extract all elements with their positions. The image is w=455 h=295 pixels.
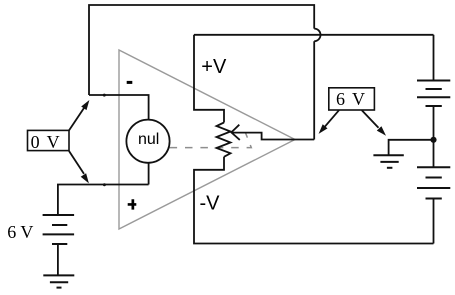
op-amp U1 (triangle body) — [119, 50, 295, 229]
wire potentiometer bottom / -V edge / bottom rail — [194, 157, 434, 244]
svg-text:6 V: 6 V — [336, 89, 366, 109]
wire feedback loop (output to inverting input, with hop) — [89, 5, 314, 95]
label box 0 V — [28, 130, 70, 150]
node dot on noninverting wire — [103, 183, 106, 186]
node dot on inverting wire — [103, 94, 106, 97]
wire inverting input — [89, 95, 149, 120]
wire op-amp output — [295, 139, 314, 141]
ground symbol left — [43, 275, 74, 287]
arrow 0V to noninverting wire — [69, 151, 89, 183]
svg-text:nul: nul — [138, 131, 159, 148]
svg-text:-V: -V — [200, 193, 221, 215]
arrow 0V to inverting wire — [69, 100, 89, 130]
wire hop over +V rail — [314, 29, 320, 42]
battery B1 plates — [43, 215, 75, 244]
wire battery B3 bottom lead — [433, 199, 435, 244]
arrow 6V to ground node — [362, 110, 386, 136]
wire battery B1 bottom lead — [57, 244, 59, 275]
battery B2 plates — [417, 81, 450, 107]
wire wiper to output node — [231, 133, 295, 140]
pin label minus (inverting) — [127, 81, 133, 84]
wire noninverting input — [58, 185, 149, 216]
dashed null-adjust annotation line — [170, 133, 252, 147]
svg-text:6 V: 6 V — [7, 222, 33, 242]
wire meter to noninverting input — [148, 163, 150, 185]
svg-text:0 V: 0 V — [31, 132, 61, 152]
arrow 6V to output node — [319, 110, 339, 134]
wire feedback vertical lower — [313, 41, 315, 139]
junction dot between batteries — [430, 137, 436, 143]
wire +V top rail — [194, 34, 434, 36]
wire battery midpoint to ground — [389, 140, 434, 156]
null meter M1 body — [126, 120, 169, 163]
potentiometer resistor zigzag — [217, 123, 231, 157]
potentiometer wiper arrowhead — [231, 125, 240, 140]
wire +V left edge to potentiometer top — [194, 35, 224, 123]
ground symbol right — [373, 155, 403, 168]
label box 6 V — [329, 88, 375, 110]
svg-text:+V: +V — [201, 56, 227, 78]
pin label plus (noninverting) — [128, 199, 137, 209]
battery B3 plates — [417, 167, 450, 198]
wire battery B2 top lead — [433, 35, 435, 81]
wire between batteries — [433, 106, 435, 167]
